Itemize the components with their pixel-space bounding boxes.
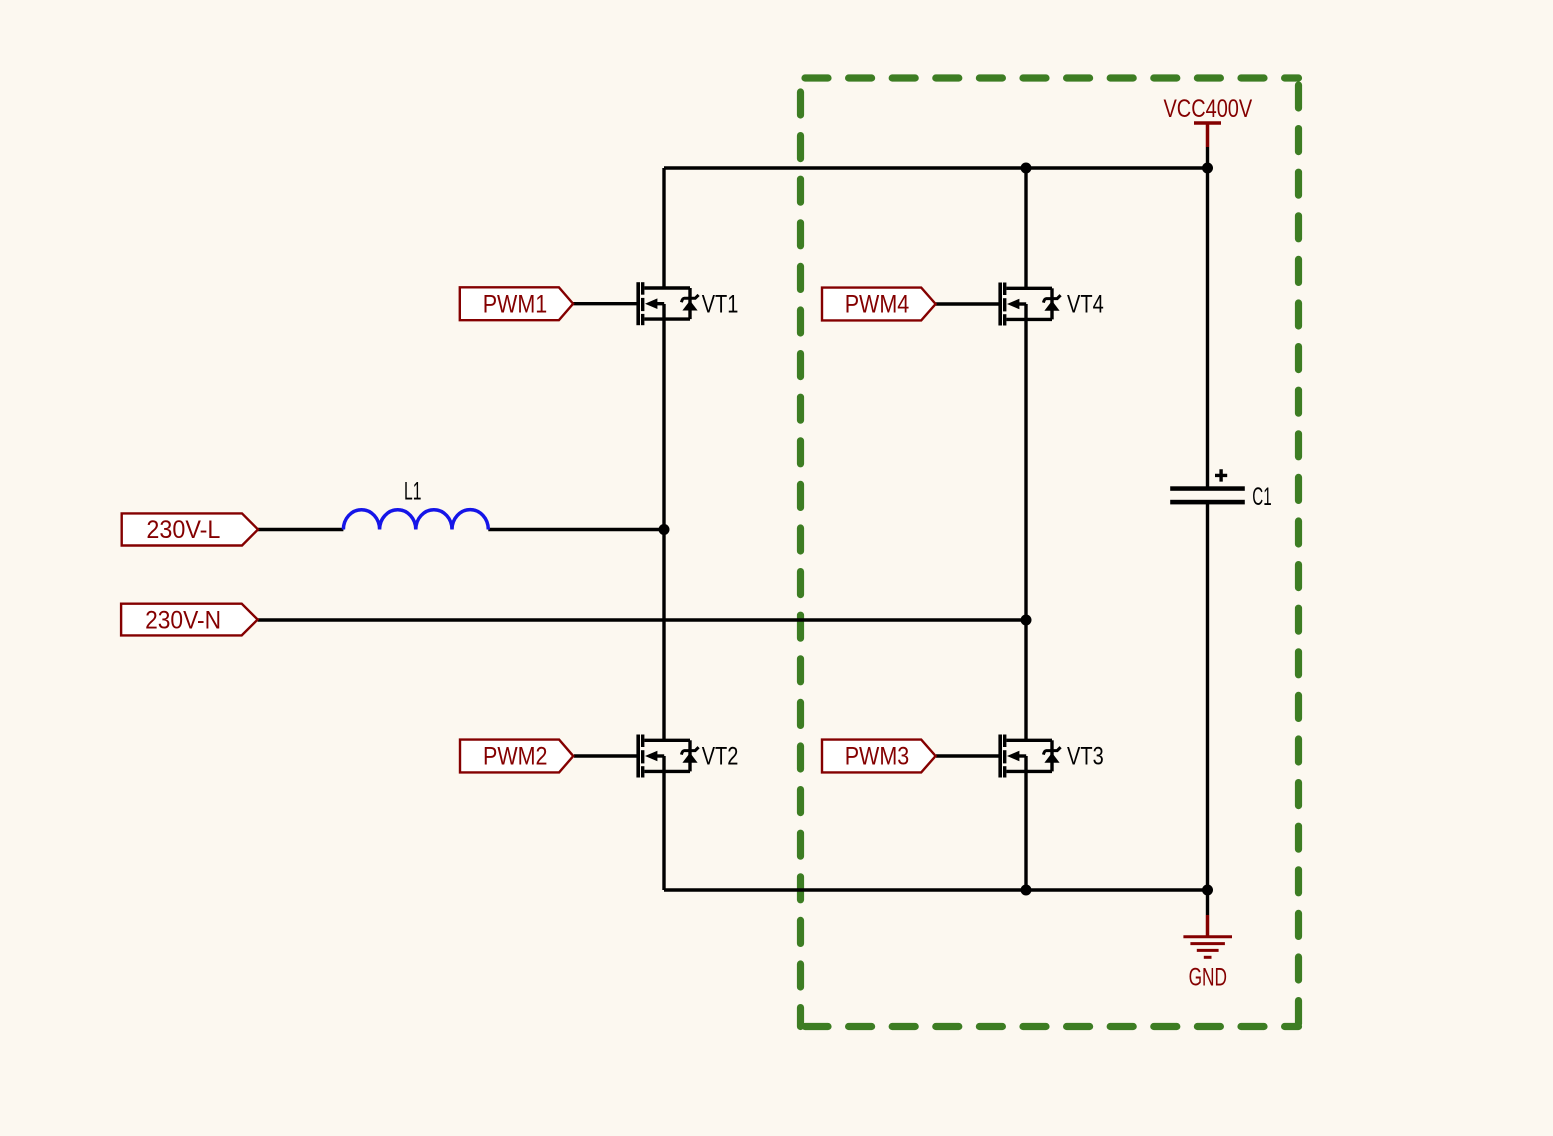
svg-text:230V-L: 230V-L — [146, 516, 220, 544]
junction top bus / VT4 drain — [1021, 163, 1032, 174]
transistor VT4 (NMOS) — [998, 283, 1103, 326]
global label PWM3 — [822, 740, 936, 773]
svg-text:VT2: VT2 — [702, 743, 739, 771]
svg-text:VT1: VT1 — [702, 290, 739, 318]
wire VT4 drain — [1024, 168, 1027, 288]
junction bottom bus / VT3 source — [1021, 885, 1032, 896]
junction node A (L1 / VT1-VT2) — [659, 524, 670, 535]
svg-text:GND: GND — [1189, 964, 1227, 992]
svg-text:PWM2: PWM2 — [483, 743, 548, 771]
wire capacitor to bottom bus — [1206, 504, 1209, 890]
svg-text:VT4: VT4 — [1067, 291, 1104, 319]
svg-text:PWM1: PWM1 — [483, 290, 548, 318]
global label 230V-L — [122, 513, 258, 545]
junction top bus / VCC / C1 — [1202, 163, 1213, 174]
svg-text:C1: C1 — [1252, 483, 1271, 511]
global label 230V-N — [121, 604, 258, 636]
wire VCC to top bus — [1206, 147, 1209, 168]
power flag VCC400V — [1164, 95, 1253, 147]
global label PWM2 — [460, 740, 573, 773]
enclosure box (green dashed) — [801, 78, 1299, 1027]
wire 230V-N to node B — [258, 618, 1026, 621]
svg-text:L1: L1 — [404, 477, 421, 505]
global label PWM4 — [822, 288, 936, 321]
inductor L1 — [343, 477, 488, 529]
ground GND — [1183, 915, 1232, 992]
wire PWM1 to VT1 gate — [573, 302, 637, 305]
wire inductor to node A — [488, 528, 664, 531]
wire bottom bus — [664, 888, 1208, 891]
global label PWM1 — [460, 287, 573, 320]
wire PWM4 to VT4 gate — [936, 302, 999, 305]
svg-text:VCC400V: VCC400V — [1164, 95, 1253, 123]
wire PWM2 to VT2 gate — [574, 754, 637, 757]
wire PWM3 to VT3 gate — [936, 754, 999, 757]
wire VT1 source to VT2 drain — [662, 304, 665, 740]
wire 230V-L to inductor — [258, 528, 343, 531]
transistor VT3 (NMOS) — [998, 735, 1103, 778]
wire top bus to capacitor — [1206, 168, 1209, 487]
capacitor C1 (polarized) — [1170, 469, 1272, 511]
junction node B (230V-N / VT4-VT3) — [1021, 615, 1032, 626]
wire VT4 source to VT3 drain — [1024, 304, 1027, 740]
svg-text:PWM4: PWM4 — [845, 291, 910, 319]
transistor VT2 (NMOS) — [636, 735, 738, 778]
junction bottom bus / C1 / GND — [1202, 885, 1213, 896]
svg-text:VT3: VT3 — [1067, 743, 1104, 771]
wire VT3 source to bottom bus — [1024, 756, 1027, 890]
wire top bus — [664, 166, 1208, 169]
svg-text:230V-N: 230V-N — [145, 607, 221, 635]
wire VT2 source to bottom bus — [662, 756, 665, 890]
wire bottom bus to ground — [1206, 890, 1209, 915]
wire VT1 drain — [662, 168, 665, 288]
transistor VT1 (NMOS) — [636, 282, 738, 325]
svg-text:PWM3: PWM3 — [845, 743, 910, 771]
